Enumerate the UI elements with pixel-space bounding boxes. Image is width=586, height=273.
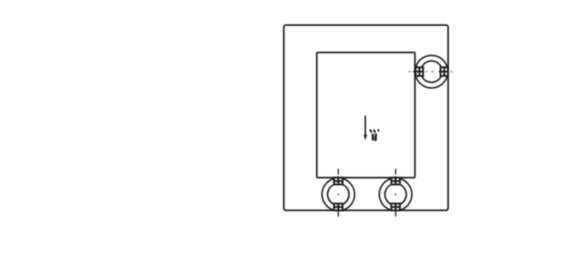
W3 top turn marks (391, 178, 400, 185)
W2 axis centerline (337, 169, 339, 217)
W2 outer coil arcs (322, 179, 333, 210)
W3 outer coil arcs (379, 179, 390, 210)
core outer edge (284, 25, 448, 210)
W3 axis centerline (395, 169, 397, 217)
winding W2 on bottom limb (left) (322, 169, 355, 217)
winding W3 on bottom limb (right) (379, 169, 412, 217)
flux arrow (364, 116, 368, 141)
W1 inner coil arcs (422, 61, 441, 67)
W2 inner coil arcs (328, 185, 334, 204)
W1 axis centerline (409, 71, 453, 73)
W2 bottom turn marks (334, 204, 343, 211)
W1 left turn marks (416, 67, 424, 76)
label psi (flux linkage) (370, 130, 378, 140)
W3 bottom turn marks (391, 204, 400, 211)
W1 outer coil arcs (416, 55, 447, 66)
core window inner edge (317, 52, 415, 177)
winding W1 on right limb (409, 55, 453, 88)
W3 inner coil arcs (385, 185, 391, 204)
W2 top turn marks (334, 178, 343, 185)
W1 right turn marks (441, 67, 449, 76)
